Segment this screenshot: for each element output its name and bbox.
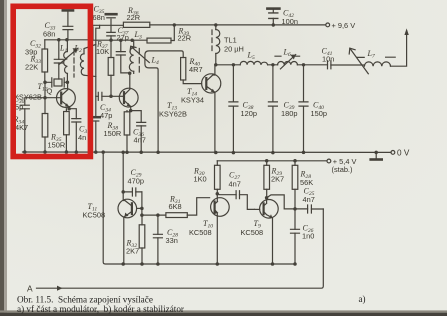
node C32 top [57, 38, 134, 42]
svg-text:2K7: 2K7 [271, 175, 284, 184]
variability arrow L3 [130, 46, 149, 62]
svg-text:KC508: KC508 [241, 228, 264, 237]
svg-text:33n: 33n [166, 236, 178, 245]
node R37 base [109, 95, 113, 99]
capacitor C39 [268, 65, 297, 153]
svg-text:4n7: 4n7 [303, 195, 315, 204]
node emitter line junctions [121, 262, 296, 266]
transistor T12 [14, 82, 75, 109]
resistor R39 [147, 25, 191, 43]
wire: 0V rail [23, 151, 392, 153]
svg-text:150p: 150p [311, 109, 327, 118]
capacitor C36 [131, 111, 146, 153]
svg-text:470p: 470p [128, 177, 144, 186]
link winding L4 [145, 51, 183, 152]
terminal +5.4V [327, 157, 356, 174]
resistor R34 [13, 98, 48, 152]
svg-text:68n: 68n [43, 30, 55, 39]
svg-text:10n: 10n [322, 55, 334, 64]
wire: oscillator supply node line [45, 27, 147, 40]
core dashed line L1/L2 [73, 50, 75, 77]
svg-text:1K0: 1K0 [194, 175, 207, 184]
wire L2 column [96, 25, 100, 116]
capacitor C40 [299, 65, 327, 153]
wire T9 collector to C25 node [267, 195, 295, 209]
node T13 emitter [129, 109, 133, 113]
inductor L1 [59, 40, 67, 83]
svg-text:KC508: KC508 [189, 228, 212, 237]
resistor R36 [123, 6, 149, 28]
capacitor C38 [229, 65, 257, 153]
transistor T11 [83, 152, 142, 264]
transistor T13 [119, 73, 187, 118]
svg-text:22K: 22K [25, 63, 38, 72]
svg-text:a): a) [359, 294, 366, 304]
node T9 collector [265, 196, 297, 211]
resistor R37 [96, 40, 114, 97]
capacitor C31 [69, 109, 90, 152]
node rail junctions [173, 23, 275, 26]
svg-text:27p: 27p [117, 33, 129, 42]
inductor TL1 [212, 25, 244, 65]
capacitor C33 [43, 10, 73, 39]
svg-text:22R: 22R [178, 34, 192, 43]
node L3 bottom / T13 collector [128, 72, 132, 76]
svg-text:KSY34: KSY34 [181, 96, 204, 105]
svg-text:6K8: 6K8 [169, 202, 182, 211]
resistor R29 [264, 161, 284, 198]
resistor R30 [193, 161, 220, 194]
resistor R32 [126, 215, 145, 264]
svg-text:100n: 100n [282, 17, 298, 26]
terminal +9.6V [326, 21, 355, 30]
capacitor C30 [14, 95, 46, 153]
node crystal-left [43, 81, 69, 100]
terminal 0V [391, 148, 410, 157]
capacitor C37 [107, 26, 129, 42]
resistor R28 [292, 161, 313, 209]
resistor R33 [25, 39, 48, 82]
highlight box [13, 6, 90, 156]
svg-text:4n7: 4n7 [134, 136, 146, 145]
wire: +5.4V rail [217, 160, 326, 162]
label a) [359, 294, 366, 304]
capacitor C28 [153, 215, 178, 264]
capacitor C41 [322, 47, 335, 69]
wire C29/base/R31 column [142, 208, 166, 215]
svg-text:TL1: TL1 [224, 36, 237, 45]
capacitor C26 [291, 209, 315, 264]
svg-text:A: A [27, 284, 33, 294]
capacitor C32 [54, 40, 63, 79]
svg-text:10K: 10K [96, 47, 109, 56]
wire: emitter line [123, 263, 295, 265]
svg-text:a) vf část a modulátor, b) ko: a) vf část a modulátor, b) kodér a stabi… [17, 304, 184, 314]
resistor R38 [104, 111, 130, 153]
svg-text:0 V: 0 V [397, 148, 410, 157]
svg-text:KSY62B: KSY62B [159, 110, 187, 119]
antenna wire [391, 28, 409, 66]
node +5.4V rail junctions [265, 159, 297, 163]
wire: +9.6V rail [93, 24, 326, 26]
svg-text:4R7: 4R7 [189, 65, 203, 74]
node output line junctions [214, 63, 305, 66]
inductor L7 [349, 48, 395, 74]
capacitor C42 [267, 9, 298, 27]
ground symbol [371, 152, 382, 159]
coupling capacitor at L2 bottom [92, 117, 100, 152]
resistor R40 [181, 57, 203, 84]
variability arrow L1 [59, 48, 78, 64]
wire crystal-left to base node [44, 82, 46, 97]
svg-text:47p: 47p [100, 111, 112, 120]
core dashed line L3/L4 [138, 49, 140, 76]
svg-text:+ 9,6 V: + 9,6 V [332, 21, 356, 30]
capacitor C29 [123, 168, 144, 208]
svg-text:Obr. 11.5. Schéma zapojení vy: Obr. 11.5. Schéma zapojení vysílače [17, 294, 153, 304]
svg-text:150R: 150R [104, 129, 122, 138]
svg-text:180p: 180p [281, 109, 297, 118]
svg-text:KC508: KC508 [83, 211, 106, 220]
svg-text:22R: 22R [127, 13, 141, 22]
resistor R31 [166, 195, 210, 218]
resistor R35 [48, 109, 70, 152]
inductor L6 [275, 48, 300, 69]
svg-text:150R: 150R [48, 141, 66, 150]
svg-text:20 µH: 20 µH [224, 45, 244, 54]
node 0V rail junctions [23, 150, 378, 154]
wire: feedback line A [27, 209, 323, 294]
capacitor C35 [93, 5, 117, 32]
transistor T10 [189, 194, 229, 264]
svg-text:120p: 120p [241, 109, 257, 118]
node T12 emitter [67, 107, 71, 111]
capacitor C27 [217, 171, 254, 210]
svg-text:1n0: 1n0 [302, 232, 314, 241]
svg-text:4n: 4n [78, 133, 86, 142]
wire: rail to emitter-line link [103, 152, 123, 264]
svg-text:68n: 68n [93, 13, 105, 22]
crystal Q [45, 78, 67, 96]
inductor L2 [74, 44, 96, 77]
svg-text:2K7: 2K7 [126, 247, 139, 256]
tank capacitor [116, 40, 129, 73]
transistor T9 [241, 198, 279, 264]
svg-text:(stab.): (stab.) [332, 165, 353, 174]
svg-text:4K7: 4K7 [15, 123, 28, 132]
capacitor C34 [96, 92, 119, 120]
wire: output line [216, 64, 365, 66]
svg-text:5p: 5p [15, 103, 23, 112]
inductor L5 [240, 51, 267, 65]
inductor L3 [129, 30, 142, 73]
transistor T14 [181, 65, 221, 153]
node T11 collector [121, 190, 159, 217]
node T10 collector [216, 192, 220, 196]
svg-text:4n7: 4n7 [229, 180, 241, 189]
capacitor C25 [295, 187, 323, 214]
